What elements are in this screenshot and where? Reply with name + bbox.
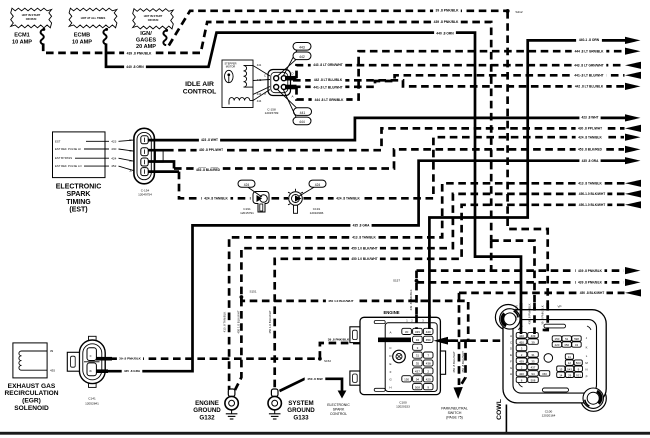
svg-text:424 .8 TAN/BLK: 424 .8 TAN/BLK (578, 135, 602, 139)
svg-text:N: N (585, 368, 587, 372)
pin oval 424 (309, 180, 326, 187)
svg-text:S212: S212 (515, 10, 523, 14)
svg-text:ECMB: ECMB (74, 33, 90, 39)
svg-text:HOT AT ALL TIMES: HOT AT ALL TIMES (81, 16, 106, 20)
svg-text:444: 444 (257, 99, 262, 103)
svg-text:439 .8 PNK/BLK: 439 .8 PNK/BLK (409, 289, 413, 310)
svg-text:EST: EST (55, 139, 61, 143)
wire 39 PNK/BLK from S152 to engine connector (320, 340, 380, 359)
svg-text:424: 424 (111, 156, 116, 160)
C141 left tab (67, 352, 79, 371)
wire 439 PNK/BLK trunk down to engine connector row (490, 241, 493, 271)
svg-text:39 .8 PNK/BLK: 39 .8 PNK/BLK (328, 337, 350, 341)
svg-text:51: 51 (565, 337, 569, 341)
wire 439 PNK/BLK into engine connector (overlay) (415, 315, 418, 329)
svg-text:439: 439 (519, 359, 524, 363)
splice S152 (318, 357, 322, 361)
stepper motor coil (vertical) (244, 66, 247, 88)
svg-text:435: 435 (50, 368, 55, 372)
wire 439 PNK/BLK row to right arrow (417, 269, 625, 272)
fuse box IGN/GAGES (HOT IN START OR RUN) (133, 9, 174, 29)
pin oval 424 (238, 180, 255, 187)
svg-text:12015799: 12015799 (265, 111, 279, 115)
svg-text:440-1 .8 ORN: 440-1 .8 ORN (579, 38, 600, 42)
svg-text:442 .8 LT BLU/BLK: 442 .8 LT BLU/BLK (575, 85, 604, 89)
wire 444 LT GRN/BLK (297, 51, 625, 99)
svg-text:EXHAUST GAS: EXHAUST GAS (8, 383, 56, 390)
svg-text:450 1.0 BLK/WHT: 450 1.0 BLK/WHT (351, 257, 377, 261)
svg-text:MOTOR: MOTOR (226, 65, 236, 69)
svg-text:S151: S151 (249, 290, 256, 294)
svg-text:G132: G132 (199, 414, 215, 421)
svg-text:20 AMP: 20 AMP (136, 44, 156, 50)
svg-text:GAGES: GAGES (136, 38, 156, 44)
svg-text:598: 598 (574, 337, 579, 341)
svg-text:94: 94 (416, 377, 420, 381)
svg-text:15: 15 (559, 367, 563, 371)
svg-text:C141: C141 (88, 397, 96, 401)
svg-text:450 .8 BLK/WHT: 450 .8 BLK/WHT (452, 351, 456, 373)
svg-text:450-1.0 BLK/WHT: 450-1.0 BLK/WHT (579, 192, 605, 196)
cowl connector corner arcs (519, 326, 523, 330)
C141 pins A B (87, 348, 96, 361)
svg-text:423: 423 (111, 139, 116, 143)
svg-text:443: 443 (299, 46, 305, 50)
svg-text:453 .8 BLK/RED: 453 .8 BLK/RED (196, 168, 221, 172)
engine connector pin grid (402, 328, 412, 334)
svg-text:43: 43 (575, 343, 579, 347)
svg-text:450 .8 BLK/WHT: 450 .8 BLK/WHT (580, 291, 604, 295)
svg-text:29: 29 (568, 373, 572, 377)
label 439 .8 PNK/BLK (124, 51, 154, 56)
svg-text:420: 420 (519, 372, 524, 376)
svg-text:435 .8 GRA: 435 .8 GRA (353, 224, 371, 228)
cowl connector left pin grid (516, 333, 527, 338)
svg-text:442 .8 LT BLU/BLK: 442 .8 LT BLU/BLK (314, 78, 343, 82)
svg-text:39 .8 PNK/BLK: 39 .8 PNK/BLK (436, 9, 460, 13)
cowl connector C100 12020164 plate (495, 305, 521, 331)
wire 450 BLK/WHT from G133 to electronic spark control (280, 379, 343, 391)
svg-text:10 AMP: 10 AMP (12, 39, 32, 45)
svg-text:B: B (89, 370, 93, 372)
wire 440 ORN into engine connector (overlay) (428, 315, 431, 329)
wire 450 BLK/WHT to cowl connector left (468, 339, 503, 342)
svg-text:420: 420 (426, 377, 431, 381)
svg-text:503: 503 (576, 361, 581, 365)
svg-text:453 .8 BLK/RED: 453 .8 BLK/RED (578, 148, 603, 152)
svg-text:E: E (389, 362, 391, 366)
svg-text:921: 921 (576, 373, 581, 377)
svg-text:OR RUN: OR RUN (148, 18, 159, 22)
svg-text:P: P (586, 374, 588, 378)
wire 439 PNK/BLK from ECM1 fuse to splice and cowl connector (43, 22, 491, 241)
svg-text:439: 439 (415, 330, 420, 334)
pin oval 441 (294, 108, 312, 116)
svg-text:S157: S157 (393, 279, 400, 283)
svg-text:H: H (389, 386, 391, 390)
inline connector C191 (12015791) (253, 192, 269, 213)
svg-text:413 .8 TAN/BLK: 413 .8 TAN/BLK (578, 181, 602, 185)
svg-text:450: 450 (519, 340, 524, 344)
svg-text:12020153: 12020153 (396, 404, 410, 408)
svg-text:GROUND: GROUND (287, 407, 315, 414)
svg-text:31: 31 (416, 354, 420, 358)
svg-text:31: 31 (531, 353, 535, 357)
wire 39 PNK/BLK trunk from S212 down to cowl connector (508, 11, 548, 330)
svg-text:(EST): (EST) (69, 206, 87, 213)
wire 439 PNK/BLK vertical into engine connector (415, 271, 418, 328)
wire 450 BLK/WHT to engine ground G132 (235, 194, 625, 390)
wire 450-1 BLK/WHT to system ground G133 (275, 205, 625, 390)
svg-text:C: C (510, 340, 512, 344)
wire 39 PNK/BLK from EGR to splice S152 (112, 357, 320, 360)
cowl connector right lower grid (565, 354, 573, 359)
svg-text:424 .8 TAN/BLK: 424 .8 TAN/BLK (204, 196, 228, 200)
fuse ECM1 (42, 28, 45, 31)
C-154 side latch (156, 150, 164, 162)
svg-text:441-.8 LT BLU/WHT: 441-.8 LT BLU/WHT (574, 73, 603, 77)
wire 423 WHT (149, 118, 627, 140)
svg-text:452: 452 (111, 164, 116, 168)
svg-text:413 .8 TAN/BLK: 413 .8 TAN/BLK (352, 236, 376, 240)
svg-text:A: A (291, 95, 293, 99)
svg-text:12015791: 12015791 (240, 211, 254, 215)
svg-text:IGN/: IGN/ (140, 31, 152, 37)
svg-text:440 .8 ORN: 440 .8 ORN (436, 31, 454, 35)
electronic spark timing (EST) box (53, 132, 106, 178)
svg-text:424: 424 (244, 183, 250, 187)
svg-text:12052841: 12052841 (85, 401, 99, 405)
fuse box ECMB (HOT AT ALL TIMES) (69, 8, 117, 28)
connector C-154 body (134, 128, 155, 184)
svg-text:K: K (586, 346, 588, 350)
connector C-158 (IAC) body (268, 70, 291, 96)
wire 435 GRA from EGR up and to right arrow (108, 161, 626, 372)
svg-text:A: A (89, 355, 93, 357)
svg-text:450: 450 (426, 338, 431, 342)
engine ground G132 ring terminal (228, 389, 235, 396)
svg-text:508: 508 (415, 385, 420, 389)
svg-text:424: 424 (315, 183, 321, 187)
svg-text:437: 437 (531, 366, 536, 370)
svg-text:12: 12 (568, 361, 572, 365)
wire 442 LT BLU/BLK (293, 80, 624, 86)
svg-text:439: 439 (531, 334, 536, 338)
svg-text:35: 35 (416, 362, 420, 366)
svg-text:94: 94 (531, 372, 535, 376)
svg-text:437: 437 (415, 370, 420, 374)
svg-text:ELECTRONIC: ELECTRONIC (56, 184, 102, 191)
svg-text:441-.8 LT BLU/WHT: 441-.8 LT BLU/WHT (313, 85, 342, 89)
svg-text:PARK/NEUTRAL: PARK/NEUTRAL (441, 407, 468, 411)
svg-text:424 .8 TAN/BLK: 424 .8 TAN/BLK (336, 197, 360, 201)
svg-text:OR RUN: OR RUN (26, 17, 37, 21)
svg-text:EST BYPASS: EST BYPASS (55, 156, 72, 160)
wire 443 LT GRN/WHT (297, 65, 625, 78)
svg-text:12020164: 12020164 (542, 413, 556, 417)
svg-text:450 1.0 BLK/WHT: 450 1.0 BLK/WHT (268, 310, 272, 334)
svg-text:CONTROL: CONTROL (183, 89, 217, 96)
svg-text:COWL: COWL (496, 399, 503, 420)
IAC connector wire stubs (285, 76, 297, 81)
svg-text:EST REF. PULSE LO: EST REF. PULSE LO (55, 164, 83, 168)
svg-text:F: F (510, 359, 512, 363)
svg-text:150: 150 (404, 377, 409, 381)
svg-text:430 .8 PPL/WHT: 430 .8 PPL/WHT (578, 127, 602, 131)
wire 39 PNK/BLK into cowl connector (overlay) (544, 303, 548, 334)
svg-text:39: 39 (531, 340, 535, 344)
wire 439 PNK/BLK into cowl connector (overlay) (533, 303, 536, 334)
svg-text:12010996: 12010996 (310, 211, 324, 215)
svg-text:450 .8 BLK/WHT: 450 .8 BLK/WHT (461, 351, 465, 373)
idle air control stepper motor box (222, 60, 253, 108)
cowl connector bolt bottom-right (583, 388, 603, 408)
wire 413 TAN/BLK to engine ground G132 (229, 183, 624, 390)
svg-text:150: 150 (542, 372, 547, 376)
svg-text:450 1.0 BLK/WHT: 450 1.0 BLK/WHT (351, 246, 377, 250)
svg-text:34: 34 (416, 338, 420, 342)
label 39 .8 PNK/BLK (433, 8, 461, 13)
svg-text:(PAGE 75): (PAGE 75) (446, 416, 463, 420)
EST pin leader lines and numbers 423 430 424 453 (86, 140, 109, 142)
svg-text:RECIRCULATION: RECIRCULATION (4, 390, 58, 397)
svg-text:508: 508 (531, 378, 536, 382)
pin oval 444 (293, 117, 311, 125)
svg-text:14: 14 (559, 373, 563, 377)
svg-text:12049754: 12049754 (138, 192, 152, 196)
svg-text:A: A (129, 169, 131, 173)
svg-text:B: B (129, 159, 131, 163)
svg-text:439 .8 PNK/BLK: 439 .8 PNK/BLK (527, 303, 531, 324)
wire 39 PNK/BLK bar into engine connector (overlay) (378, 337, 411, 342)
label 440-1 .8 ORN (576, 37, 602, 42)
svg-text:430 .8 PPL/WHT: 430 .8 PPL/WHT (199, 148, 223, 152)
svg-text:G133: G133 (293, 414, 309, 421)
wire 439 PNK/BLK branch to cowl connector C100 (491, 241, 534, 334)
cowl connector right upper grid (552, 336, 561, 341)
wire 440 ORN into cowl connector (overlay) (520, 303, 523, 334)
svg-text:G: G (510, 366, 512, 370)
svg-text:H: H (510, 372, 512, 376)
svg-text:10 AMP: 10 AMP (72, 39, 92, 45)
svg-text:11: 11 (568, 355, 571, 359)
ground symbol G132 (231, 410, 233, 414)
svg-text:39: 39 (50, 349, 54, 353)
system ground G133 ring terminal (271, 389, 278, 396)
fuse box ECM1 (HOT IN START OR RUN) (11, 8, 52, 28)
svg-text:35: 35 (531, 359, 535, 363)
svg-text:440: 440 (519, 334, 524, 338)
svg-text:SPARK: SPARK (67, 191, 91, 198)
inline connector C191 (12010996) (289, 192, 303, 206)
svg-text:E: E (510, 353, 512, 357)
svg-text:441: 441 (300, 111, 306, 115)
svg-text:39-.8 PNK/BLK: 39-.8 PNK/BLK (119, 357, 141, 361)
exhaust gas recirculation (EGR) solenoid box (13, 343, 47, 378)
splice S151 (240, 295, 244, 299)
wire 39 PNK/BLK from IGN fuse to splice S212 (169, 11, 507, 46)
svg-text:ENGINE: ENGINE (195, 400, 219, 407)
wire 450 BLK/WHT branch from S151 to engine connector (241, 297, 468, 341)
wire 440 ORN branch to engine connector (429, 218, 475, 329)
wire 450 BLK/WHT row 3 (459, 292, 625, 295)
svg-text:420: 420 (554, 343, 559, 347)
svg-text:30: 30 (405, 330, 409, 334)
svg-text:350: 350 (564, 343, 569, 347)
label 440 .8 ORN (434, 31, 456, 36)
engine connector bolt (393, 350, 406, 363)
svg-text:438: 438 (426, 362, 431, 366)
svg-text:439 .8 PNK/BLK: 439 .8 PNK/BLK (127, 51, 152, 55)
svg-text:450 .8 B/W: 450 .8 B/W (307, 377, 323, 381)
wire 440 ORN from ECMB fuse (106, 33, 521, 334)
svg-text:441: 441 (257, 63, 262, 67)
svg-text:TIMING: TIMING (66, 199, 91, 206)
svg-text:A: A (510, 334, 512, 338)
svg-text:423 .8 WHT: 423 .8 WHT (201, 138, 218, 142)
C-154 pins D C B A (141, 136, 148, 144)
wire 441 LT BLU/WHT (293, 75, 625, 87)
svg-text:CONTROL: CONTROL (330, 412, 347, 416)
svg-text:543: 543 (567, 367, 572, 371)
svg-text:439 .8 PNK/BLK: 439 .8 PNK/BLK (578, 281, 603, 285)
stepper motor armature (225, 70, 234, 82)
svg-text:F: F (390, 370, 392, 374)
svg-text:(EGR): (EGR) (22, 398, 41, 405)
svg-text:A: A (389, 330, 391, 334)
svg-text:413 .8 TAN/BLK: 413 .8 TAN/BLK (222, 312, 226, 333)
engine connector C100 12020153 body (350, 327, 360, 343)
svg-text:150: 150 (554, 337, 559, 341)
fuse IGN/GAGES (165, 29, 168, 32)
svg-text:443 .8 LT GRN/WHT: 443 .8 LT GRN/WHT (313, 63, 343, 67)
C141 wire stubs (96, 357, 112, 361)
IAC connector pins C D B A (274, 76, 279, 81)
svg-text:444 .8 LT GRN/BLK: 444 .8 LT GRN/BLK (575, 49, 605, 53)
wire 430 PPL/WHT (149, 149, 167, 152)
svg-text:423 .8 WHT: 423 .8 WHT (581, 116, 598, 120)
stepper motor coil (horizontal) (229, 98, 250, 101)
engine connector top/bottom slots (374, 321, 385, 324)
connector C141 body (89, 336, 97, 340)
wire 450 BLK/WHT arrow into engine connector (overlay) (434, 337, 449, 345)
svg-text:SYSTEM: SYSTEM (288, 400, 313, 407)
svg-text:443 .8 LT GRN/WHT: 443 .8 LT GRN/WHT (574, 63, 604, 67)
svg-text:430: 430 (111, 147, 116, 151)
wires 450 BLK/WHT to park/neutral switch (458, 293, 461, 385)
svg-text:442: 442 (299, 55, 305, 59)
svg-text:VP: VP (557, 305, 561, 309)
fuse ECMB (105, 28, 108, 31)
wire 424 TAN/BLK (149, 170, 180, 173)
svg-text:450 1.0 BLK/WHT: 450 1.0 BLK/WHT (237, 310, 241, 334)
svg-text:440: 440 (426, 330, 431, 334)
label 439 .8 PNK/BLK (431, 19, 461, 24)
svg-text:HOT IN START: HOT IN START (22, 13, 41, 17)
COWL divider line (505, 405, 507, 433)
svg-text:435 .8 GRA: 435 .8 GRA (582, 159, 600, 163)
EGR coil (19, 351, 22, 370)
svg-text:444 .8 LT GRN/BLK: 444 .8 LT GRN/BLK (315, 98, 345, 102)
svg-text:435 .8 GRA: 435 .8 GRA (124, 369, 141, 373)
wire 453 BLK/RED (149, 162, 175, 169)
svg-text:SPARK: SPARK (333, 408, 345, 412)
svg-text:450-1.0 BLK/WHT: 450-1.0 BLK/WHT (579, 203, 605, 207)
svg-text:440 .8 ORN: 440 .8 ORN (126, 65, 144, 69)
svg-text:SWITCH: SWITCH (448, 411, 462, 415)
page bottom border (0, 432, 650, 435)
wire 439 PNK/BLK branch row 2 (417, 281, 625, 284)
svg-text:39 .8 PNK/BLK: 39 .8 PNK/BLK (541, 305, 545, 325)
splice S157 (415, 279, 419, 283)
svg-text:EST REF. PULSE HI: EST REF. PULSE HI (55, 147, 81, 151)
thin leads from stepper box to connector (253, 66, 270, 77)
svg-text:ECM1: ECM1 (14, 33, 30, 39)
pin oval 442 (293, 52, 311, 60)
svg-text:GROUND: GROUND (193, 407, 221, 414)
ground symbol G133 (274, 410, 276, 414)
svg-text:444: 444 (299, 120, 305, 124)
svg-text:D: D (510, 347, 512, 351)
svg-text:450 1.0 BLK/WHT: 450 1.0 BLK/WHT (328, 299, 354, 303)
svg-text:IDLE AIR: IDLE AIR (185, 81, 214, 88)
pin oval 443 (293, 43, 311, 51)
label 440 .8 ORN (124, 64, 146, 69)
svg-text:SOLENOID: SOLENOID (14, 405, 49, 412)
wire 440-1 ORN branch to right arrow (475, 40, 626, 217)
cowl connector bolt top-left (500, 309, 520, 329)
svg-text:HOT IN START: HOT IN START (144, 14, 163, 18)
svg-text:440-.8 ORN: 440-.8 ORN (514, 305, 518, 320)
svg-text:439 .8 PNK/BLK: 439 .8 PNK/BLK (434, 20, 459, 24)
splice S212 (506, 9, 510, 13)
svg-text:ENGINE: ENGINE (383, 310, 399, 315)
svg-text:S152: S152 (324, 359, 331, 363)
svg-text:ELECTRONIC: ELECTRONIC (327, 403, 350, 407)
cowl connector slots (544, 324, 566, 328)
svg-text:439 .8 PNK/BLK: 439 .8 PNK/BLK (578, 269, 603, 273)
